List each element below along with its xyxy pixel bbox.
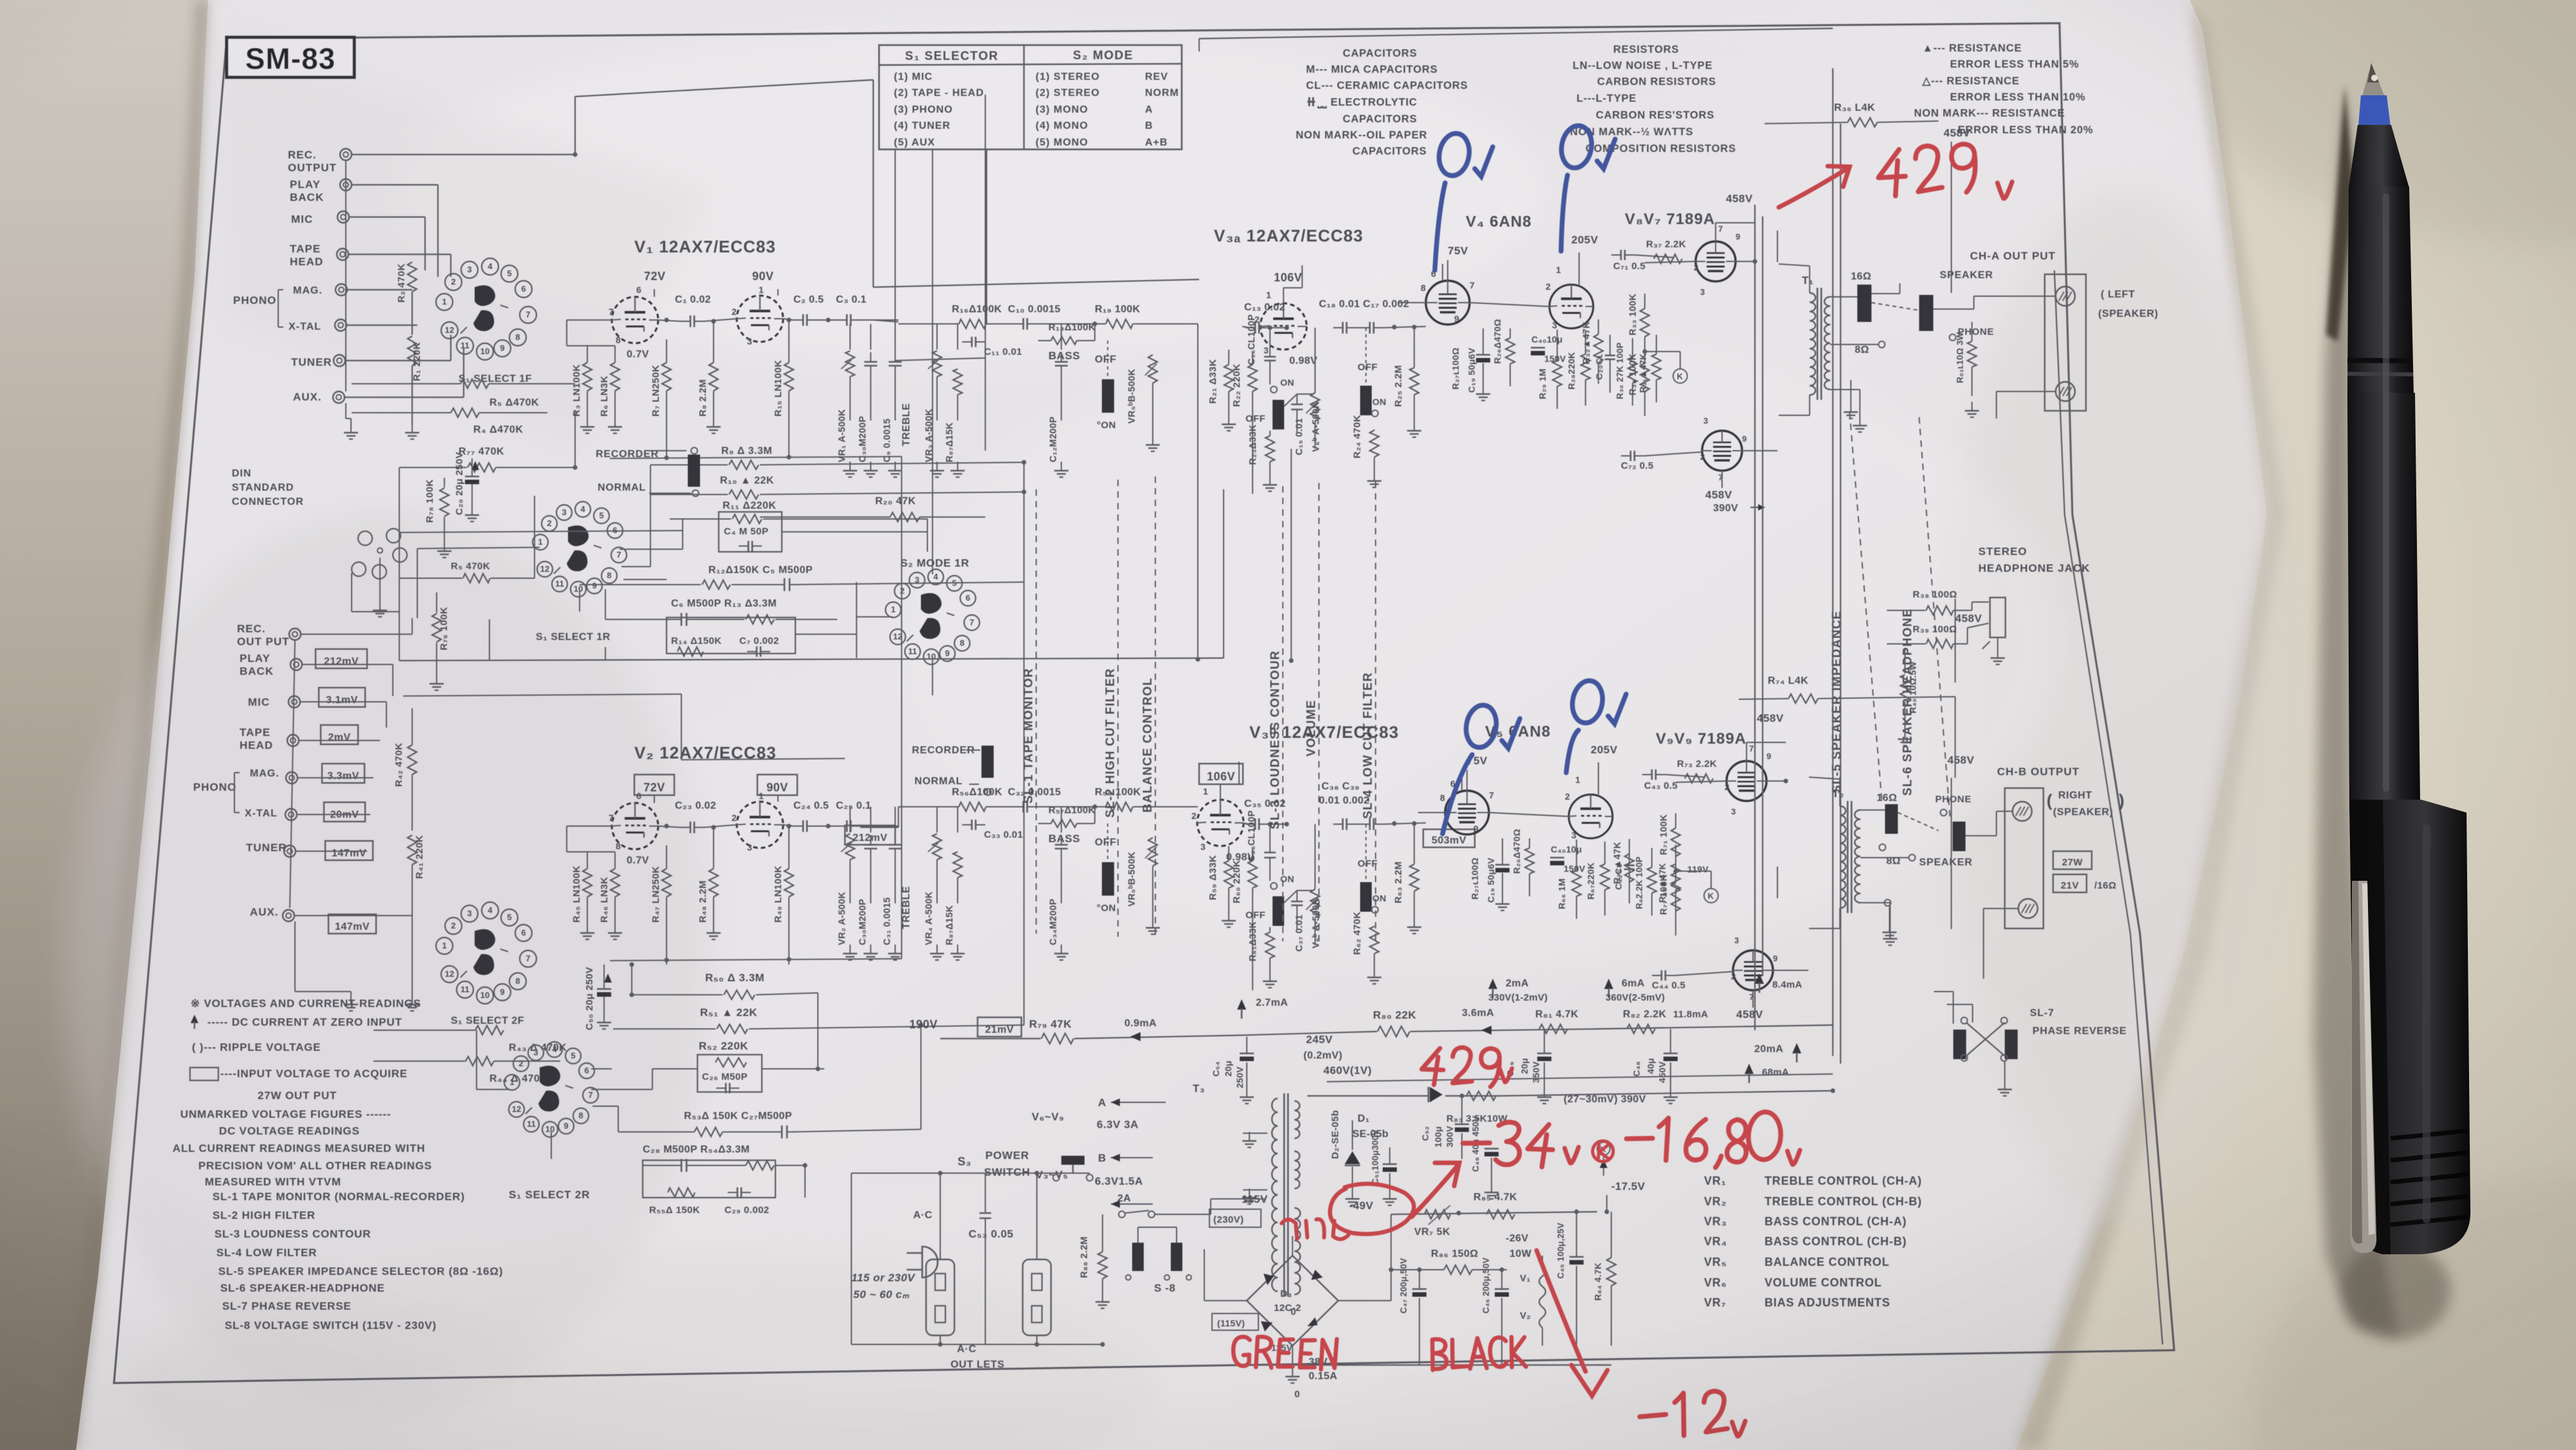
wires 7189A bbox=[1645, 261, 1696, 263]
resistor R1 220K bbox=[408, 336, 417, 366]
voltage box 21mV bbox=[978, 1017, 1021, 1037]
dashed line SL-2 HIGH CUT FILTER bbox=[1117, 480, 1119, 937]
resistor R₆ LN3K bbox=[611, 362, 620, 391]
capacitor C4 M50P box bbox=[719, 512, 782, 552]
tube 7189A lower row1 bbox=[1702, 431, 1742, 471]
red scribble word bbox=[1282, 1219, 1349, 1239]
rotary switch S1 SELECT 2R bbox=[504, 1075, 520, 1090]
current 68mA bbox=[1745, 1064, 1754, 1074]
wires middle-left mesh bbox=[399, 531, 683, 532]
wires S1R block bbox=[620, 549, 683, 550]
ground bbox=[870, 462, 871, 471]
transformer T2 secondary coil bbox=[1855, 810, 1861, 903]
ground R40 bbox=[1904, 730, 1906, 739]
wires terminals row2 bbox=[1996, 811, 1997, 836]
screw terminal upper bbox=[2056, 287, 2075, 306]
wires input group 2 bbox=[301, 634, 412, 635]
ground VR5b bbox=[1152, 436, 1153, 445]
ground bbox=[849, 945, 851, 954]
tube 7189A upper row1 bbox=[1696, 241, 1736, 281]
ground jack bbox=[1997, 649, 1998, 658]
voltage box 2mV bbox=[321, 725, 358, 744]
resistor R43 470K bbox=[475, 1026, 504, 1035]
wire row1 bottom to power bbox=[1291, 449, 1292, 661]
current 2mA 330V bbox=[1488, 979, 1497, 989]
ground bridge bottom bbox=[1292, 1368, 1293, 1377]
wires tube stage bbox=[567, 825, 612, 827]
wire B+ to power supply bbox=[1597, 1025, 1833, 1029]
tube 7189A upper row2 bbox=[1727, 761, 1766, 801]
ground DIN bbox=[379, 601, 381, 610]
ground R21 bbox=[1228, 912, 1229, 921]
wire top right rail bbox=[1199, 28, 1833, 39]
resistor R42 470K bbox=[408, 745, 417, 775]
component VR₃ A-500K bbox=[936, 324, 938, 350]
wire 429V node bbox=[1501, 1091, 1833, 1096]
wire mid horizontal bus 2 bbox=[403, 694, 681, 696]
wire mid horizontal bus bbox=[399, 658, 1224, 661]
ground input 1 bbox=[412, 424, 413, 433]
tube V1a bbox=[612, 297, 658, 343]
component C₃₁ 0.0015 bbox=[895, 807, 896, 833]
schematic border bbox=[114, 23, 2174, 1383]
pen cap bbox=[2349, 800, 2470, 1254]
resistor R₄₅ LN100K bbox=[583, 869, 592, 897]
voltage box 21V bbox=[2053, 874, 2087, 892]
ground bbox=[936, 462, 938, 471]
dashed line SL-3 LOUDNESS CONTOUR bbox=[1282, 486, 1283, 941]
screw terminal lower bbox=[2056, 382, 2075, 401]
component R₈₇Δ15K bbox=[957, 807, 958, 833]
paper wrinkle shading bbox=[64, 515, 708, 1417]
component VR₁ A-500K bbox=[849, 324, 851, 350]
component C₁₂M200P bbox=[1061, 324, 1062, 350]
pen metal tip bbox=[2362, 63, 2385, 97]
wire table drops bbox=[895, 149, 896, 361]
wire K node arrow bbox=[1597, 1142, 1610, 1155]
pen shadow dark silhouette bbox=[2326, 85, 2354, 341]
blue note 0V third bbox=[1443, 703, 1520, 834]
ground bbox=[587, 924, 588, 933]
component C₃₀M200P bbox=[870, 807, 871, 833]
resistor R5 470K bbox=[460, 379, 489, 388]
ground bbox=[895, 945, 896, 954]
phase reverse cross wires bbox=[1966, 1022, 2005, 1056]
ground transformer tap bbox=[1859, 417, 1861, 426]
headphone jack symbol bbox=[1990, 598, 2005, 637]
tube V2b bbox=[737, 802, 783, 848]
transformer T3 primary coil bbox=[1272, 1098, 1278, 1292]
rotary switch S1 SELECT 1R bbox=[533, 534, 548, 550]
wires bridge bbox=[1204, 1300, 1247, 1301]
ground C54 bbox=[1246, 1088, 1247, 1097]
switch SL-7 black left bbox=[1953, 1030, 1966, 1059]
ground bbox=[614, 418, 616, 427]
ground bbox=[870, 945, 871, 954]
ground bbox=[936, 945, 938, 954]
wire tone bus bbox=[898, 323, 959, 325]
pen black taper bbox=[2349, 125, 2409, 188]
AC outlet 2 bbox=[1023, 1259, 1051, 1335]
wires output switches bbox=[1871, 303, 1919, 310]
resistor R75 470K bbox=[463, 574, 490, 583]
wires output switches row2 bbox=[1898, 813, 1938, 831]
resistor R41 220K bbox=[408, 835, 417, 865]
pen barrel rings bbox=[2347, 358, 2412, 364]
wire tone bus feed row1 bbox=[873, 320, 898, 322]
switch SL-7 black right bbox=[2005, 1030, 2018, 1059]
pen clip bbox=[2351, 881, 2376, 1253]
switch SL-5 black bbox=[1857, 285, 1871, 322]
wire right return rail bbox=[2054, 270, 2163, 1344]
pen shadow bottom blob bbox=[2341, 1243, 2450, 1339]
blue note 0V second bbox=[1558, 124, 1615, 251]
tube 7189A lower row2 bbox=[1733, 950, 1773, 990]
red arrow to 429v top bbox=[1779, 166, 1850, 207]
switch SL-1 row2 bbox=[981, 746, 994, 778]
wire tone bus bbox=[898, 806, 959, 807]
ground R78 bbox=[444, 542, 445, 551]
red note 429v top right bbox=[1877, 144, 1976, 197]
voltage 72V bbox=[634, 775, 674, 795]
boxed 115V lower bbox=[1212, 1313, 1258, 1330]
red note -34v bbox=[1462, 1120, 1553, 1167]
wire right vertical rail pair bbox=[1754, 205, 1756, 1030]
tube V4 triode bbox=[1549, 285, 1593, 328]
wires to terminals bbox=[1973, 296, 1975, 309]
resistor R₄₆ LN3K bbox=[611, 869, 620, 897]
input terminals group 1 bbox=[340, 149, 352, 160]
table S1 selector / S2 mode bbox=[879, 45, 1182, 149]
voltage box 3.1mV bbox=[319, 688, 365, 707]
component C₃₀M200P bbox=[870, 324, 871, 350]
switch SL-6 black bbox=[1919, 295, 1933, 331]
rotary switch S1 SELECT 1F bbox=[436, 294, 453, 310]
boxed 230V bbox=[1209, 1209, 1261, 1227]
voltage box 3.3mV bbox=[322, 764, 365, 783]
red arrow down to -12v bbox=[1537, 1250, 1607, 1396]
terminal box bbox=[2045, 274, 2086, 411]
ground R21 bbox=[1228, 415, 1229, 424]
tube V1b bbox=[737, 296, 783, 342]
voltage box 147mV second bbox=[328, 914, 376, 934]
ground SL-7 bbox=[2004, 1080, 2005, 1089]
component VR₂ A-500K bbox=[849, 807, 851, 833]
wire V2 row bus bbox=[666, 960, 667, 965]
wire B+ from bridge bbox=[1596, 1029, 1598, 1212]
dashed line SL-6 SPEAKER HEADPHONE bbox=[1919, 417, 1950, 818]
current 8.4mA bbox=[1755, 974, 1764, 984]
dashed line BALANCE CONTROL bbox=[1155, 476, 1156, 940]
pen mid barrel bbox=[2347, 393, 2420, 801]
wires 6AN8 bbox=[1470, 303, 1549, 306]
ground bbox=[957, 945, 958, 954]
resistor R₄₈ 2.2M bbox=[709, 869, 718, 897]
wires DIN area bbox=[399, 467, 400, 578]
resistor R₈ 2.2M bbox=[709, 362, 718, 391]
transformer T1 core bbox=[1817, 288, 1819, 400]
ground C49 bbox=[1544, 1088, 1545, 1097]
wires 6AN8 bbox=[1489, 813, 1569, 816]
red circled K bbox=[1593, 1141, 1613, 1162]
red note -12v bbox=[1639, 1391, 1728, 1437]
pen cap ribs bbox=[2391, 1131, 2468, 1225]
box R14 150K / C7 0.002 bbox=[667, 617, 795, 654]
ground R76 bbox=[436, 675, 437, 684]
transformer T3 secondary coil bbox=[1294, 1208, 1300, 1294]
wire V2 to tone bus bbox=[898, 807, 899, 827]
red note BLACK bbox=[1432, 1336, 1526, 1370]
ground bbox=[1061, 462, 1062, 471]
wires input group 1 bbox=[352, 154, 575, 155]
transformer T3 core bbox=[1283, 1093, 1285, 1297]
resistor R76 100K bbox=[432, 614, 441, 642]
legend dc current at zero input bbox=[191, 1015, 198, 1023]
DIN connector circles bbox=[358, 531, 372, 545]
wires transformer bbox=[1809, 266, 1810, 293]
wires transformer bbox=[1839, 779, 1841, 806]
ground R25 bbox=[1414, 918, 1415, 927]
wires 7189A bbox=[1676, 781, 1727, 782]
paper edge shadow on desk left bbox=[62, 0, 208, 1450]
wire table to S2 rotary bbox=[932, 149, 933, 574]
desk top-right corner shade bbox=[2177, 0, 2576, 245]
ground output bbox=[1971, 402, 1973, 411]
ground VR5b bbox=[1152, 919, 1153, 928]
wires phase reverse bbox=[1953, 992, 1954, 1024]
red note -16,80v bbox=[1625, 1116, 1747, 1169]
wires tube stage bbox=[567, 319, 612, 321]
resistor R₄₉ LN100K bbox=[784, 869, 793, 897]
ground bbox=[587, 418, 588, 427]
wire V1 row bus bbox=[666, 454, 667, 458]
box R55 150K / C29 0.002 bbox=[643, 1160, 775, 1198]
paper right edge shadow on desk bbox=[2016, 0, 2285, 1450]
red arrow -49V to -34V bbox=[1412, 1163, 1459, 1217]
switch SL-6 black row2 bbox=[1953, 822, 1965, 851]
tube V3a bbox=[1260, 303, 1307, 350]
power switch symbol bbox=[1061, 1156, 1084, 1165]
voltage box 27W bbox=[2053, 851, 2092, 869]
rotary switch S2 MODE 1R bbox=[885, 602, 901, 617]
capacitor C26 M50P box bbox=[697, 1055, 762, 1092]
ground C20 bbox=[471, 506, 473, 515]
ground R88 bbox=[1102, 1293, 1103, 1302]
dashed line SL-1 TAPE MONITOR bbox=[1036, 489, 1037, 934]
wire 458V drops bbox=[1951, 142, 1952, 293]
wires S2 mode bbox=[857, 616, 893, 617]
ground R24 bbox=[1374, 968, 1375, 977]
ground mid bbox=[1269, 476, 1271, 485]
desk background left strip bbox=[0, 0, 232, 1450]
wire B+ rail vertical bbox=[1832, 68, 1833, 1056]
current 2.7mA bbox=[1237, 999, 1246, 1010]
voltage box 147mV bbox=[325, 841, 373, 860]
red note 429v middle bbox=[1421, 1046, 1500, 1087]
switch SL-1 row1 bbox=[688, 455, 700, 487]
component R₈₇Δ15K bbox=[957, 324, 958, 350]
ground C50 bbox=[603, 1013, 605, 1022]
resistor R₁₅ LN100K bbox=[784, 362, 793, 391]
ground bbox=[614, 924, 616, 933]
resistor R4 470K bbox=[451, 408, 479, 417]
resistor R78 100K bbox=[440, 488, 449, 516]
legend input voltage box bbox=[190, 1068, 218, 1080]
node K circle bbox=[1704, 889, 1718, 903]
tube V4 pentode bbox=[1426, 281, 1470, 325]
resistor R44 470K bbox=[466, 1057, 494, 1066]
transformer T2 core bbox=[1847, 801, 1849, 913]
ground bbox=[957, 462, 958, 471]
ground input 2 bbox=[350, 424, 352, 433]
voltage box 503mV bbox=[1423, 829, 1475, 847]
screw terminal upper row2 bbox=[2012, 802, 2032, 821]
ground input group 2 bbox=[412, 995, 413, 1004]
ground C19 bbox=[1502, 895, 1503, 904]
ground bbox=[713, 418, 714, 427]
dashed line VOLUME bbox=[1318, 483, 1320, 943]
resistor R₄₇ LN250K bbox=[662, 869, 671, 897]
ground C48 bbox=[1670, 1088, 1671, 1097]
component C₃₄M200P bbox=[1061, 807, 1062, 833]
screw terminal lower row2 bbox=[2018, 899, 2038, 918]
voltage box 212mV bbox=[316, 649, 367, 668]
wire -49V rail bbox=[1391, 1212, 1597, 1214]
terminal box row2 bbox=[2005, 788, 2043, 928]
wires negative rail bottom bbox=[1419, 1364, 1611, 1366]
resistor R2 470K bbox=[408, 262, 417, 292]
wire top rail bbox=[575, 80, 873, 97]
ground R24 bbox=[1374, 472, 1375, 481]
pen upper barrel bbox=[2347, 187, 2414, 394]
tube V5 triode bbox=[1569, 795, 1613, 838]
switch SL-5 black row2 bbox=[1885, 804, 1898, 834]
voltage box 212mV row2 bbox=[845, 825, 895, 845]
transformer T1 secondary coil bbox=[1824, 297, 1830, 390]
voltage box 20mV bbox=[324, 802, 365, 822]
ground bbox=[895, 462, 896, 471]
ground bbox=[1061, 945, 1062, 954]
resistor R₃ LN100K bbox=[583, 362, 592, 391]
node K circle bbox=[1673, 369, 1687, 383]
tube V3b bbox=[1197, 800, 1244, 846]
blue note 0V first bbox=[1435, 131, 1493, 270]
pen blue ink band bbox=[2358, 95, 2391, 126]
pen highlight bbox=[2383, 193, 2389, 792]
red circle around -49V bbox=[1330, 1184, 1414, 1234]
ground speaker switch bbox=[1850, 403, 1851, 412]
component VR₄ A-500K bbox=[936, 807, 938, 833]
ground bbox=[713, 924, 714, 933]
title box SM-83 bbox=[227, 37, 354, 77]
ground C19 bbox=[1482, 385, 1484, 394]
wires power primary bbox=[851, 1173, 852, 1344]
dashed line SL-4 LOW CUT FILTER bbox=[1375, 482, 1376, 945]
input terminals group 2 bbox=[289, 628, 301, 640]
tube V5 pentode bbox=[1445, 791, 1489, 834]
component C₉ 0.0015 bbox=[895, 324, 896, 350]
bridge rectifier D3 12C-2 bbox=[1247, 1256, 1338, 1346]
ground transformer tap bbox=[1889, 930, 1891, 939]
ground bbox=[849, 462, 851, 471]
red note GREEN bbox=[1233, 1335, 1337, 1370]
wire long verticals center bbox=[985, 95, 986, 451]
pen shadow soft bbox=[2313, 84, 2399, 1336]
tube V2a bbox=[612, 803, 658, 849]
AC outlet 1 bbox=[926, 1259, 954, 1335]
rotary switch S1 SELECT 2F bbox=[436, 937, 453, 954]
wires S1 2R block bbox=[591, 1089, 652, 1090]
blue note 0V fourth bbox=[1566, 679, 1626, 773]
ground R25 bbox=[1414, 422, 1415, 431]
resistor R₇ LN250K bbox=[662, 362, 671, 391]
voltage 106V bbox=[1199, 764, 1243, 784]
ground mid bbox=[1269, 972, 1271, 981]
dashed line SL-5 SPEAKER IMPEDANCE bbox=[1850, 412, 1882, 800]
current 6mA 360V bbox=[1604, 979, 1613, 989]
ground tap row2 bbox=[1889, 923, 1890, 932]
